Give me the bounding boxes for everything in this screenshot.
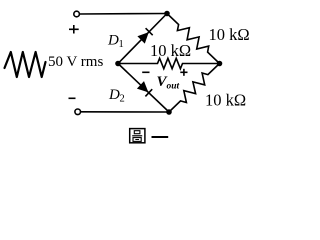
node T junction dot [164, 11, 170, 17]
label Vout plus sign [180, 69, 187, 76]
svg-text:1: 1 [119, 39, 124, 50]
diode D1 wire (node L to node T) [118, 14, 167, 64]
label + (top terminal polarity) [69, 25, 79, 34]
svg-text:10 kΩ: 10 kΩ [209, 25, 250, 44]
node L junction dot [115, 61, 121, 67]
node R junction dot [217, 61, 223, 67]
svg-text:D: D [107, 33, 119, 49]
caption glyph 一 (one) [152, 136, 169, 138]
terminal top (open circle) [74, 11, 80, 17]
svg-text:D: D [108, 87, 120, 103]
diode D2 arrow [137, 81, 149, 92]
diode D1 arrow [137, 32, 148, 44]
svg-text:10 kΩ: 10 kΩ [150, 41, 191, 60]
diode D2 wire (node L to node B) [118, 64, 169, 113]
resistor middle 10 kOhm (node L to node R) [118, 58, 220, 68]
resistor top-right 10 kOhm (node T to node R) [167, 14, 220, 64]
diode D2 cathode bar [145, 89, 152, 96]
svg-text:2: 2 [120, 94, 125, 105]
wire bottom rail [81, 111, 169, 113]
svg-text:50 V rms: 50 V rms [48, 54, 103, 70]
diode D1 cathode bar [146, 28, 153, 35]
caption glyph 圖 (Figure) [130, 129, 145, 143]
node B junction dot [166, 109, 172, 115]
svg-text:out: out [167, 82, 180, 92]
terminal bottom (open circle) [75, 109, 81, 115]
label - (bottom terminal polarity) [69, 97, 76, 99]
svg-text:10 kΩ: 10 kΩ [205, 91, 246, 110]
source AC sine symbol [5, 52, 46, 77]
resistor bottom-right 10 kOhm (node B to node R) [169, 64, 220, 113]
label Vout minus sign [142, 71, 149, 73]
wire top rail [80, 13, 167, 16]
